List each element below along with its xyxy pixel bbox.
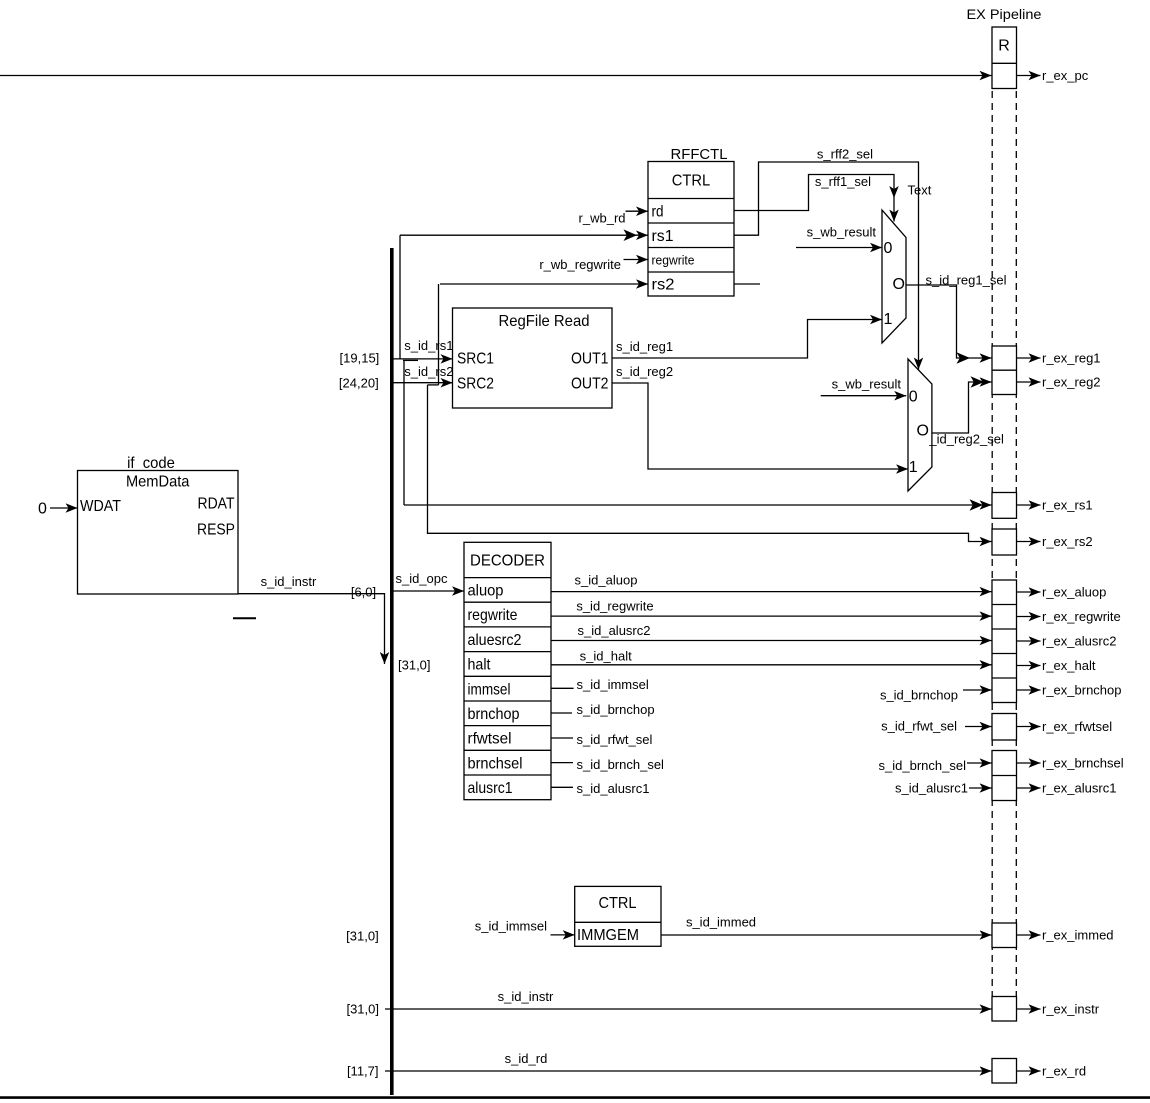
svg-text:r_wb_rd: r_wb_rd [579, 210, 626, 225]
wire mux1 select segment 2 [893, 198, 895, 222]
wire s_id_aluop to r_ex_aluop [551, 591, 992, 593]
junction tick rs1 [403, 359, 418, 361]
svg-text:r_ex_aluop: r_ex_aluop [1042, 585, 1106, 600]
svg-text:s_id_rs1: s_id_rs1 [404, 338, 453, 353]
wire s_id_alusrc1 into reg [969, 787, 992, 789]
wire OUT1 to mux1 input 1 [612, 320, 882, 359]
svg-text:aluop: aluop [468, 583, 504, 600]
svg-text:s_id_immed: s_id_immed [686, 915, 756, 930]
svg-text:r_ex_rfwtsel: r_ex_rfwtsel [1042, 719, 1112, 734]
register r_ex_rd [992, 1059, 1017, 1084]
wire rs2 output stub [734, 283, 760, 285]
wire s_id_alusrc2 to r_ex_alusrc2 [551, 640, 992, 642]
svg-text:brnchsel: brnchsel [468, 755, 523, 772]
register r_ex_rfwtsel [992, 714, 1017, 741]
mux1 [882, 210, 906, 343]
block if_code MemData [78, 471, 239, 595]
svg-text:0: 0 [909, 389, 918, 406]
svg-text:EX Pipeline: EX Pipeline [967, 6, 1042, 22]
svg-text:[19,15]: [19,15] [340, 351, 380, 366]
wire rs2 branch up [438, 284, 440, 385]
wire r_ex_rs1 in (double arrowhead) [404, 504, 992, 506]
svg-text:s_wb_result: s_wb_result [832, 377, 902, 392]
svg-text:CTRL: CTRL [672, 173, 711, 190]
wire s_rff2_sel from rs1 output to mux2 select [734, 162, 919, 370]
svg-text:s_id_instr: s_id_instr [498, 989, 554, 1004]
svg-text:r_ex_alusrc1: r_ex_alusrc1 [1042, 781, 1116, 796]
register r_ex_instr [992, 997, 1017, 1022]
svg-text:MemData: MemData [126, 474, 190, 491]
wire r_ex_alusrc2 out [1017, 640, 1041, 642]
svg-text:s_id_reg1: s_id_reg1 [616, 339, 673, 354]
svg-text:O: O [917, 423, 929, 440]
svg-text:s_rff1_sel: s_rff1_sel [815, 174, 871, 189]
svg-text:s_id_immsel: s_id_immsel [475, 918, 547, 933]
wire s_id_brnch_sel into reg [967, 762, 992, 764]
RegFile Read block [453, 308, 613, 408]
wire rs1 branch down [403, 360, 405, 505]
wire s_id_opc into DECODER [393, 590, 464, 592]
block RFFCTL [648, 162, 734, 297]
svg-text:RESP: RESP [197, 522, 235, 539]
svg-text:s_id_regwrite: s_id_regwrite [576, 599, 653, 614]
wire r_wb_regwrite into regwrite [624, 259, 649, 261]
wire s_id_brnch_sel stub [551, 762, 573, 764]
svg-text:s_id_instr: s_id_instr [261, 574, 317, 589]
wire s_wb_result into mux1 input 0 [796, 247, 882, 249]
svg-text:s_id_alusrc1: s_id_alusrc1 [577, 781, 650, 796]
svg-text:if_code: if_code [127, 455, 175, 472]
svg-text:1: 1 [909, 459, 918, 476]
wire s_id_regwrite to r_ex_regwrite [551, 615, 992, 617]
register r_ex_rs2 [992, 529, 1017, 555]
register r_ex_brnchsel r_ex_alusrc1 [992, 751, 1017, 801]
svg-text:s_id_alusrc1: s_id_alusrc1 [895, 781, 968, 796]
svg-text:alusrc1: alusrc1 [468, 780, 513, 797]
wire rs1 branch up [399, 235, 401, 359]
wire s_id_immsel into IMMGEM [551, 934, 575, 936]
wire s_id_rfwt_sel stub [551, 737, 573, 739]
dash mark below if_code [233, 617, 256, 619]
wire s_wb_result into mux2 input 0 [821, 395, 907, 397]
wire s_id_halt to r_ex_halt [551, 664, 992, 666]
svg-text:r_ex_halt: r_ex_halt [1042, 658, 1096, 673]
svg-text:s_id_rs2: s_id_rs2 [404, 364, 453, 379]
register r_ex_rs1 [992, 493, 1017, 519]
bottom border line [0, 1096, 1150, 1099]
svg-text:[6,0]: [6,0] [351, 585, 376, 600]
wire r_ex_pc out [1017, 75, 1041, 77]
wire r_ex_halt out [1017, 665, 1041, 667]
wire s_rff1_sel from rd output to mux1 select [734, 175, 894, 211]
wire r_ex_aluop out [1017, 591, 1041, 593]
bus s_id_instr vertical thick [390, 248, 394, 1095]
block DECODER [464, 542, 551, 799]
svg-text:aluesrc2: aluesrc2 [468, 632, 522, 649]
svg-text:s_id_rfwt_sel: s_id_rfwt_sel [577, 732, 653, 747]
svg-text:DECODER: DECODER [470, 553, 545, 570]
svg-text:s_id_brnchop: s_id_brnchop [880, 688, 958, 703]
svg-text:r_ex_alusrc2: r_ex_alusrc2 [1042, 634, 1116, 649]
svg-text:r_ex_regwrite: r_ex_regwrite [1042, 609, 1121, 624]
svg-text:SRC1: SRC1 [457, 350, 494, 367]
wire pc into R [0, 75, 992, 77]
wire s_id_brnchop into reg [963, 689, 992, 691]
svg-text:[31,0]: [31,0] [346, 1002, 379, 1017]
dashed pipeline boundary right [1015, 91, 1017, 997]
svg-text:OUT2: OUT2 [571, 375, 609, 392]
svg-text:RegFile Read: RegFile Read [499, 313, 590, 330]
svg-text:1: 1 [884, 311, 893, 328]
svg-text:0: 0 [884, 240, 893, 257]
wire r_wb_rd into rd [626, 210, 649, 212]
svg-text:halt: halt [468, 657, 491, 674]
wire s_id_rs1 tap into SRC1 [393, 358, 453, 360]
svg-text:0: 0 [38, 501, 47, 518]
svg-text:r_ex_reg2: r_ex_reg2 [1042, 375, 1101, 390]
svg-text:IMMGEM: IMMGEM [577, 927, 639, 944]
junction tick rs2 [428, 384, 439, 386]
svg-text:immsel: immsel [468, 681, 511, 698]
svg-text:r_ex_immed: r_ex_immed [1042, 928, 1114, 943]
svg-text:s_id_rd: s_id_rd [505, 1051, 548, 1066]
svg-text:s_id_reg1_sel: s_id_reg1_sel [926, 273, 1007, 288]
svg-text:SRC2: SRC2 [457, 375, 494, 392]
svg-text:_id_reg2_sel: _id_reg2_sel [928, 431, 1004, 446]
svg-text:O: O [893, 276, 905, 293]
register stack aluop..brnchop [992, 580, 1017, 703]
svg-text:rfwtsel: rfwtsel [468, 731, 512, 748]
svg-text:r_ex_brnchsel: r_ex_brnchsel [1042, 756, 1124, 771]
svg-text:RDAT: RDAT [198, 496, 235, 513]
register r_ex_immed [992, 923, 1017, 948]
svg-text:s_id_reg2: s_id_reg2 [616, 364, 673, 379]
svg-text:r_ex_brnchop: r_ex_brnchop [1042, 683, 1122, 698]
dashed pipeline boundary left [991, 91, 993, 997]
wire OUT2 to mux2 input 1 [612, 383, 908, 469]
svg-text:R: R [998, 38, 1010, 55]
wire s_id_reg1_sel mux1 out to r_ex_reg1 (double arrowhead) [906, 285, 992, 358]
wire s_id_instr to r_ex_instr [385, 1008, 992, 1010]
svg-text:s_wb_result: s_wb_result [807, 225, 877, 240]
wire s_id_brnchop stub [551, 712, 572, 714]
svg-text:s_id_halt: s_id_halt [580, 648, 632, 663]
svg-text:s_rff2_sel: s_rff2_sel [817, 147, 873, 162]
wire s_id_instr from if_code down to [31,0] [238, 594, 385, 664]
wire s_id_rd to r_ex_rd [385, 1070, 992, 1072]
svg-text:WDAT: WDAT [80, 498, 121, 515]
svg-text:s_id_brnchop: s_id_brnchop [577, 702, 655, 717]
register r_ex_reg1 r_ex_reg2 [992, 346, 1017, 395]
svg-text:r_wb_regwrite: r_wb_regwrite [539, 257, 621, 272]
wire rs2 branch down to r_ex_rs2 [428, 385, 992, 542]
svg-text:[31,0]: [31,0] [398, 658, 431, 673]
svg-text:s_id_brnch_sel: s_id_brnch_sel [879, 758, 967, 773]
svg-text:RFFCTL: RFFCTL [671, 146, 728, 163]
svg-text:s_id_rfwt_sel: s_id_rfwt_sel [881, 719, 957, 734]
svg-text:[24,20]: [24,20] [339, 376, 379, 391]
wire s_id_rs2 tap into SRC2 [393, 382, 453, 384]
wire s_id_rs2 branch into rs2 [440, 283, 648, 285]
svg-text:r_ex_rs1: r_ex_rs1 [1042, 498, 1093, 513]
register R box [992, 27, 1017, 89]
wire r_ex_regwrite out [1017, 616, 1041, 618]
svg-text:s_id_alusrc2: s_id_alusrc2 [578, 623, 651, 638]
svg-text:s_id_opc: s_id_opc [395, 571, 448, 586]
mux2 [908, 359, 932, 491]
wire s_id_reg2_sel mux2 out to r_ex_reg2 (double arrowhead) [932, 382, 992, 433]
svg-text:r_ex_rd: r_ex_rd [1042, 1064, 1086, 1079]
svg-text:regwrite: regwrite [468, 607, 518, 624]
svg-text:[11,7]: [11,7] [347, 1064, 379, 1079]
svg-text:rs1: rs1 [652, 228, 674, 245]
svg-text:s_id_immsel: s_id_immsel [577, 677, 649, 692]
svg-text:r_ex_instr: r_ex_instr [1042, 1002, 1100, 1017]
svg-text:OUT1: OUT1 [571, 350, 609, 367]
wire s_id_alusrc1 stub [551, 786, 573, 788]
svg-text:CTRL: CTRL [599, 895, 637, 912]
wire s_id_rfwt_sel into reg [965, 726, 992, 728]
block CTRL IMMGEM [575, 886, 661, 946]
wire r_ex_reg1 out [1017, 357, 1041, 359]
wire 0 into WDAT [50, 507, 78, 509]
svg-text:rs2: rs2 [652, 277, 675, 294]
svg-text:brnchop: brnchop [468, 706, 520, 723]
svg-text:regwrite: regwrite [652, 252, 695, 267]
wire r_ex_brnchop out [1017, 689, 1041, 691]
svg-text:rd: rd [652, 203, 664, 220]
wire s_id_rs1 branch into rs1 (double arrowhead) [400, 234, 648, 236]
svg-text:[31,0]: [31,0] [346, 928, 379, 943]
svg-text:s_id_aluop: s_id_aluop [575, 573, 638, 588]
wire r_ex_reg2 out [1017, 381, 1041, 383]
svg-text:r_ex_rs2: r_ex_rs2 [1042, 534, 1093, 549]
wire s_id_immed to r_ex_immed [661, 934, 992, 936]
wire s_id_immsel stub [551, 687, 574, 689]
svg-text:Text: Text [908, 183, 932, 198]
svg-text:s_id_brnch_sel: s_id_brnch_sel [577, 757, 665, 772]
svg-text:r_ex_reg1: r_ex_reg1 [1042, 351, 1101, 366]
svg-text:r_ex_pc: r_ex_pc [1042, 68, 1089, 83]
